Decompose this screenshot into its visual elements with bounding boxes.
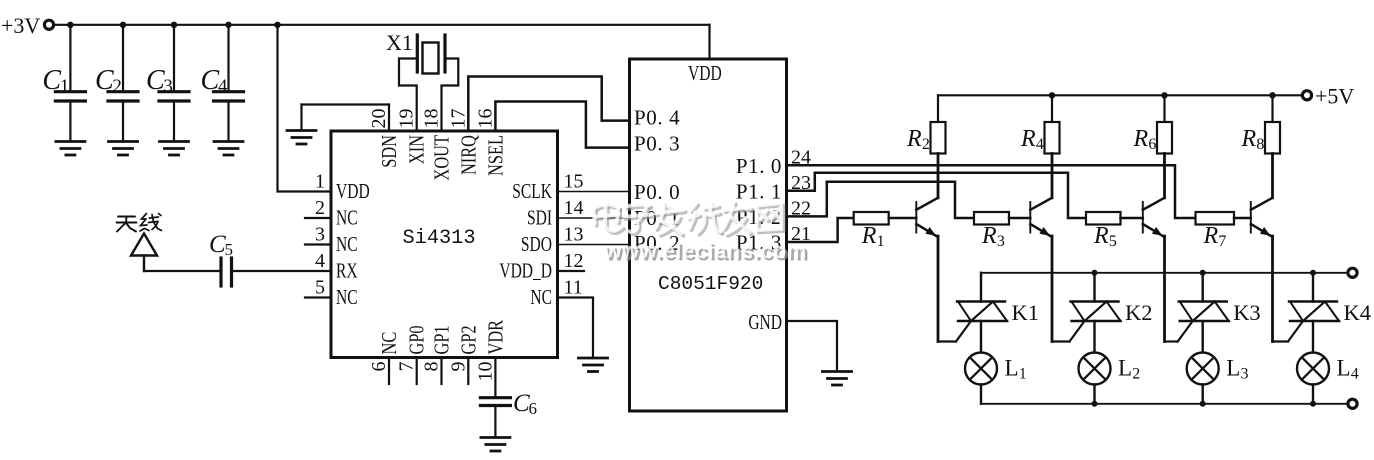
wire Q1 emitter down	[937, 236, 940, 342]
svg-text:GP1: GP1	[431, 325, 454, 354]
wire VDR pin10 to C6	[494, 358, 496, 397]
wire +5V to R6	[1163, 95, 1165, 122]
wire +5V rail	[938, 94, 1302, 96]
U1 pin 16 number	[474, 109, 496, 129]
svg-text:4: 4	[1351, 366, 1359, 383]
antenna label (CJK tian-xian)	[117, 214, 162, 232]
svg-text:3: 3	[1241, 366, 1249, 383]
net label +5V	[1315, 84, 1354, 109]
U1 pin 8 label GP1	[431, 325, 454, 354]
svg-text:15: 15	[564, 171, 584, 193]
ground C1	[56, 142, 85, 156]
junction C4 top	[225, 22, 231, 28]
svg-text:NC: NC	[336, 286, 358, 309]
svg-text:2: 2	[315, 197, 325, 219]
U1 pin 17 number	[447, 109, 469, 129]
capacitor C1	[42, 65, 85, 101]
wire lamp bottom bus	[981, 403, 1348, 405]
terminal +5V	[1302, 91, 1311, 100]
U1 pin 4 stub and number	[315, 250, 325, 272]
svg-text:14: 14	[564, 197, 584, 219]
wire pin 12 stub	[558, 270, 585, 272]
transistor Q4	[1251, 198, 1273, 237]
junction MT2 bus K2	[1092, 270, 1098, 276]
svg-text:12: 12	[564, 250, 584, 272]
transistor Q1	[916, 198, 938, 237]
lamp L4	[1297, 353, 1359, 385]
IC U2 C8051F920 body	[630, 59, 787, 411]
svg-text:SCLK: SCLK	[512, 180, 552, 203]
svg-text:4: 4	[218, 76, 228, 97]
wire C4 upper lead	[227, 25, 229, 90]
U1 pin 11 number	[564, 277, 583, 299]
wire X1 left lead to XIN pin19	[399, 59, 417, 132]
watermark CJK text	[594, 202, 784, 236]
ground SDN	[287, 131, 316, 145]
svg-text:2: 2	[1132, 366, 1140, 383]
svg-text:3: 3	[997, 233, 1005, 250]
junction lamp bus L2	[1092, 401, 1098, 407]
svg-text:1: 1	[315, 171, 325, 193]
svg-text:GP0: GP0	[406, 325, 429, 354]
U1 pin 4 label RX	[336, 259, 358, 282]
wire P1.3 pin21 to R1	[787, 218, 854, 242]
wire triac MT2 bus	[981, 272, 1348, 274]
svg-text:P1. 1: P1. 1	[736, 179, 782, 203]
U1 pin 19 label XIN	[406, 135, 429, 164]
junction lamp bus L4	[1310, 401, 1316, 407]
svg-text:VDD: VDD	[336, 180, 370, 203]
crystal X1	[386, 30, 445, 74]
svg-text:R: R	[1203, 223, 1219, 249]
svg-text:6: 6	[1148, 136, 1156, 153]
U1 pin 1 label VDD	[336, 180, 370, 203]
U1 pin 12 label VDD_D	[499, 259, 552, 282]
U1 pin 13 number	[564, 224, 584, 246]
svg-text:6: 6	[529, 399, 538, 418]
U1 pin 15 number	[564, 171, 584, 193]
wire Q4 emitter to K4 gate	[1273, 321, 1304, 342]
U1 pin 2 label NC	[336, 206, 358, 229]
U1 pin 2 stub and number	[305, 197, 331, 219]
svg-text:K3: K3	[1233, 300, 1261, 325]
svg-text:5: 5	[315, 277, 325, 299]
U1 pin 3 stub and number	[305, 224, 331, 246]
svg-text:C: C	[209, 231, 226, 258]
svg-text:SDI: SDI	[527, 206, 552, 229]
svg-text:P0. 3: P0. 3	[634, 132, 680, 156]
triac K4	[1289, 300, 1371, 325]
capacitor C3	[146, 65, 189, 101]
resistor R4	[1020, 122, 1060, 154]
wire Q3 emitter to K3 gate	[1165, 321, 1193, 342]
capacitor C2	[95, 65, 138, 101]
U1 pin 9 stub and number	[447, 358, 469, 385]
junction C2 top	[120, 22, 126, 28]
U1 pin 8 stub and number	[421, 358, 443, 385]
svg-text:2: 2	[922, 136, 930, 153]
U2 pin label P0.3	[634, 132, 680, 156]
U1 pin 17 label NIRQ	[457, 135, 480, 175]
svg-text:Si4313: Si4313	[403, 227, 476, 250]
wire C2 lower lead	[122, 103, 124, 142]
wire R3 to Q2 base	[1009, 217, 1030, 220]
wire Q2 emitter down	[1051, 236, 1054, 342]
wire P1.2 pin22 to R3	[787, 182, 975, 218]
svg-text:R: R	[1133, 126, 1149, 152]
capacitor C6	[480, 390, 537, 418]
wire C6 to ground	[494, 407, 496, 437]
svg-text:NC: NC	[336, 206, 358, 229]
wire C2 upper lead	[122, 25, 124, 90]
svg-text:1: 1	[1019, 366, 1027, 383]
svg-text:19: 19	[396, 109, 418, 129]
wire R8 to Q4 collector	[1271, 154, 1274, 198]
wire K3 MT2	[1201, 273, 1203, 302]
U1 pin 19 number	[396, 109, 418, 129]
svg-text:R: R	[1020, 126, 1036, 152]
svg-text:SDO: SDO	[521, 233, 552, 256]
U1 pin 7 stub and number	[396, 358, 418, 385]
U1 pin 11 label NC	[530, 286, 552, 309]
wire R1 to Q1 base	[889, 217, 917, 220]
svg-text:3: 3	[163, 76, 173, 97]
terminal lamp bus	[1348, 399, 1357, 408]
svg-text:2: 2	[112, 76, 122, 97]
svg-text:GND: GND	[748, 311, 782, 334]
wire SDO pin13 to P0.2	[558, 244, 630, 246]
ground C3	[160, 142, 189, 156]
svg-text:L: L	[1226, 356, 1240, 381]
svg-text:GP2: GP2	[457, 325, 480, 354]
svg-text:20: 20	[368, 109, 390, 129]
lamp L1	[965, 353, 1027, 385]
wire SDN pin20 to ground	[302, 105, 390, 132]
resistor R6	[1133, 122, 1173, 154]
wire Q4 emitter down	[1271, 236, 1274, 342]
U1 pin 13 label SDO	[521, 233, 552, 256]
svg-text:C: C	[95, 65, 114, 96]
U1 pin 6 label NC	[378, 332, 401, 355]
wire P1.1 pin23 to R5	[787, 173, 1087, 218]
IC U1 Si4313 body	[331, 131, 558, 358]
U1 pin 18 number	[421, 109, 443, 129]
svg-text:K1: K1	[1012, 300, 1040, 325]
U2 pin label P1.1	[736, 179, 782, 203]
wire X1 right lead to XOUT pin18	[442, 59, 459, 132]
wire U2 GND to ground	[787, 321, 838, 371]
junction +3V to U1 VDD	[274, 22, 280, 28]
resistor R3	[974, 212, 1009, 250]
U1 pin 16 label NSEL	[485, 135, 508, 176]
U1 pin 1 stub and number	[315, 171, 325, 193]
junction MT2 bus K4	[1310, 270, 1316, 276]
svg-text:C: C	[201, 65, 220, 96]
wire SDI pin14 to P0.1	[558, 217, 630, 219]
svg-text:6: 6	[368, 362, 390, 372]
svg-text:17: 17	[447, 109, 469, 129]
svg-text:www.elecians.com: www.elecians.com	[603, 238, 807, 263]
net label +3V	[1, 13, 40, 38]
svg-text:NC: NC	[530, 286, 552, 309]
junction MT2 bus K3	[1200, 270, 1206, 276]
junction C1 top	[67, 22, 73, 28]
U2 pin label P0.0	[634, 180, 680, 204]
svg-text:8: 8	[421, 362, 443, 372]
ground C6	[481, 438, 510, 452]
lamp L2	[1079, 353, 1141, 385]
wire K4 MT1 to L4	[1312, 321, 1314, 353]
svg-text:R: R	[1093, 223, 1109, 249]
U2 pin number 22	[791, 197, 811, 219]
svg-text:P0. 0: P0. 0	[634, 180, 680, 204]
svg-text:3: 3	[315, 224, 325, 246]
U1 pin 5 label NC	[336, 286, 358, 309]
wire C3 upper lead	[173, 25, 175, 90]
svg-text:NC: NC	[378, 332, 401, 355]
wire +3V rail to U2 VDD	[708, 25, 710, 59]
svg-text:NSEL: NSEL	[485, 135, 508, 176]
svg-text:9: 9	[447, 362, 469, 372]
svg-text:1: 1	[877, 233, 885, 250]
lamp L3	[1187, 353, 1249, 385]
wire K1 MT1 to L1	[980, 321, 982, 353]
svg-text:5: 5	[1109, 233, 1117, 250]
U2 pin label P1.0	[736, 154, 782, 178]
U2 pin label P1.3	[736, 231, 782, 255]
terminal MT2 bus	[1348, 268, 1357, 277]
svg-text:+3V: +3V	[1, 13, 40, 38]
svg-text:R: R	[906, 126, 922, 152]
svg-text:C: C	[42, 65, 61, 96]
wire R6 to Q3 collector	[1163, 154, 1166, 198]
ground C4	[214, 142, 243, 156]
antenna symbol	[131, 234, 157, 272]
U1 pin 10 label VDR	[485, 320, 508, 355]
svg-text:K4: K4	[1344, 300, 1372, 325]
svg-text:R: R	[981, 223, 997, 249]
U1 pin 7 label GP0	[406, 325, 429, 354]
svg-text:L: L	[1337, 356, 1351, 381]
U1 pin 5 stub and number	[305, 277, 331, 299]
transistor Q3	[1143, 198, 1165, 237]
resistor R2	[906, 122, 946, 154]
U2 pin label P1.2	[736, 205, 782, 229]
junction lamp bus L3	[1200, 401, 1206, 407]
svg-text:SDN: SDN	[378, 135, 401, 168]
U2 pin number 24	[791, 146, 811, 168]
U1 pin 15 label SCLK	[512, 180, 552, 203]
svg-text:8: 8	[1256, 136, 1264, 153]
wire NSEL pin16 to P0.3	[495, 102, 629, 148]
svg-text:11: 11	[564, 277, 583, 299]
U1 pin 20 label SDN	[378, 135, 401, 168]
wire C3 lower lead	[173, 103, 175, 142]
wire Q1 emitter to K1 gate	[938, 321, 971, 342]
ground U2	[823, 372, 852, 386]
wire C1 lower lead	[69, 103, 71, 142]
svg-text:7: 7	[396, 362, 418, 372]
U1 pin 14 label SDI	[527, 206, 552, 229]
resistor R5	[1086, 212, 1121, 250]
U2 pin label P0.4	[634, 106, 680, 130]
ground C2	[109, 142, 138, 156]
terminal +3V	[44, 20, 53, 29]
wire +3V rail to U1 pin 1	[278, 25, 332, 192]
wire K1 MT2	[980, 273, 982, 302]
junction C3 top	[171, 22, 177, 28]
svg-text:C: C	[146, 65, 165, 96]
U1 pin 18 label XOUT	[431, 135, 454, 181]
wire SCLK pin15 to P0.0	[558, 191, 630, 193]
svg-text:+5V: +5V	[1315, 84, 1354, 109]
capacitor C5	[209, 231, 233, 286]
triac K1	[957, 300, 1039, 325]
svg-text:C8051F920: C8051F920	[658, 273, 763, 295]
resistor R7	[1196, 212, 1235, 250]
wire K2 MT2	[1093, 273, 1095, 302]
wire R5 to Q3 base	[1121, 217, 1143, 220]
svg-text:7: 7	[1218, 233, 1226, 250]
svg-text:4: 4	[1036, 136, 1044, 153]
U2 pin number 23	[791, 172, 811, 194]
wire P1.0 pin24 to R7	[787, 165, 1196, 218]
svg-text:K2: K2	[1125, 300, 1153, 325]
wire R4 to Q2 collector	[1051, 154, 1054, 198]
U1 pin 3 label NC	[336, 233, 358, 256]
svg-text:RX: RX	[336, 259, 358, 282]
svg-text:NIRQ: NIRQ	[457, 135, 480, 175]
U2 pin label P0.2	[634, 231, 680, 255]
wire K4 MT2	[1312, 273, 1314, 302]
triac K2	[1071, 300, 1153, 325]
U2 pin label P0.1	[634, 206, 680, 230]
svg-text:XOUT: XOUT	[431, 135, 454, 181]
svg-text:R: R	[861, 223, 877, 249]
U1 pin 6 stub and number	[368, 358, 390, 385]
U2 pin label GND	[748, 311, 782, 334]
wire R2 to Q1 collector	[937, 154, 940, 198]
svg-text:VDR: VDR	[485, 320, 508, 355]
svg-text:R: R	[1241, 126, 1257, 152]
U2 pin label VDD	[688, 62, 722, 85]
wire antenna to C5	[144, 270, 220, 272]
wire C4 lower lead	[227, 103, 229, 142]
svg-text:X1: X1	[386, 30, 413, 55]
svg-text:P0. 4: P0. 4	[634, 106, 680, 130]
ground pin 11	[579, 358, 608, 372]
wire R7 to Q4 base	[1234, 217, 1251, 220]
wire Q3 emitter down	[1163, 236, 1166, 342]
svg-text:5: 5	[225, 240, 234, 259]
svg-text:L: L	[1118, 356, 1132, 381]
svg-text:4: 4	[315, 250, 325, 272]
resistor R1	[854, 212, 889, 250]
junction +5V R8	[1269, 92, 1275, 98]
U1 pin 14 number	[564, 197, 584, 219]
wire +5V to R2	[937, 95, 939, 122]
svg-text:1: 1	[60, 76, 70, 97]
U1 pin 20 number	[368, 109, 390, 129]
svg-text:L: L	[1005, 356, 1019, 381]
wire L1 bottom	[980, 385, 982, 404]
wire C5 to RX pin 4	[233, 270, 331, 272]
svg-text:P1. 0: P1. 0	[736, 154, 782, 178]
wire NIRQ pin17 to P0.4	[468, 77, 629, 132]
wire L4 bottom	[1312, 385, 1314, 404]
svg-text:13: 13	[564, 224, 584, 246]
U2 pin number 21	[791, 223, 811, 245]
resistor R8	[1241, 122, 1281, 154]
wire K3 MT1 to L3	[1201, 321, 1203, 353]
wire +5V to R8	[1271, 95, 1273, 122]
wire pin 11 to ground	[558, 298, 594, 358]
svg-text:16: 16	[474, 109, 496, 129]
wire K2 MT1 to L2	[1093, 321, 1095, 353]
svg-text:VDD: VDD	[688, 62, 722, 85]
svg-text:10: 10	[474, 362, 496, 382]
svg-text:VDD_D: VDD_D	[499, 259, 552, 282]
wire C1 upper lead	[69, 25, 71, 90]
capacitor C4	[201, 65, 244, 101]
wire L3 bottom	[1201, 385, 1203, 404]
U1 pin 10 stub and number	[474, 362, 496, 382]
junction +5V R6	[1161, 92, 1167, 98]
U1 pin 9 label GP2	[457, 325, 480, 354]
svg-text:C: C	[513, 390, 530, 417]
svg-text:NC: NC	[336, 233, 358, 256]
wire +3V rail	[54, 24, 710, 26]
wire Q2 emitter to K2 gate	[1052, 321, 1085, 342]
triac K3	[1179, 300, 1261, 325]
wire L2 bottom	[1093, 385, 1095, 404]
junction +5V R4	[1049, 92, 1055, 98]
U1 pin 12 number	[564, 250, 584, 272]
transistor Q2	[1030, 198, 1052, 237]
svg-text:XIN: XIN	[406, 135, 429, 164]
watermark url text	[603, 238, 809, 266]
svg-text:18: 18	[421, 109, 443, 129]
wire +5V to R4	[1051, 95, 1053, 122]
